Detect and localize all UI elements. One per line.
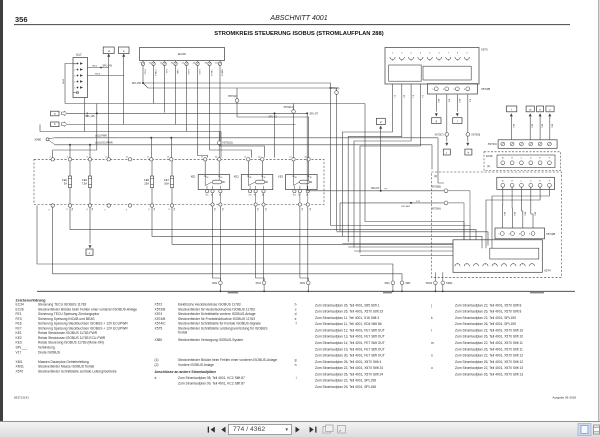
svg-text:30: 30 (310, 177, 312, 179)
svg-text:M.1: M.1 (402, 95, 404, 99)
svg-text:X575: X575 (155, 326, 163, 330)
X574/B pin 3 (521, 232, 525, 236)
svg-text:2: 2 (49, 157, 50, 159)
svg-text:33: 33 (205, 63, 208, 65)
svg-text:Steckverbinder Schnittstelle z: Steckverbinder Schnittstelle zentrale Le… (38, 369, 117, 373)
wire flag l to X574/C (510, 116, 512, 140)
svg-text:15: 15 (289, 157, 291, 159)
wire X574 to XM11 a (434, 272, 436, 281)
svg-text:663712141: 663712141 (14, 396, 29, 400)
svg-text:Zum Stromlaufplan 08, Teil 400: Zum Stromlaufplan 08, Teil 4001, KC2 Sti… (178, 376, 245, 380)
svg-text:(+15) ECU/PWR: (+15) ECU/PWR (95, 142, 113, 145)
svg-text:XM1: XM1 (16, 360, 23, 364)
X573/B pin 2 (445, 87, 449, 91)
wire FE3 to flag c (89, 207, 91, 243)
wire ECU drop to FE3 (89, 144, 91, 146)
svg-text:3: 3 (519, 234, 521, 236)
svg-text:X572: X572 (155, 303, 163, 307)
wire feed top terminal 52.7 (53, 150, 97, 158)
svg-text:Verbindung: Verbindung (38, 346, 55, 350)
svg-text:X573/B: X573/B (481, 87, 490, 91)
svg-text:Zum Stromlaufplan 09, Teil 400: Zum Stromlaufplan 09, Teil 4001, KC2 Sti… (178, 381, 245, 385)
svg-text:i: i (457, 119, 458, 123)
relay KE3 top terminals (292, 158, 295, 161)
node SPL-150 (142, 69, 144, 84)
svg-text:o: o (431, 366, 433, 370)
svg-text:A: A (502, 179, 504, 182)
svg-text:Steckverbinder Masse ISOBUS fr: Steckverbinder Masse ISOBUS frontal (38, 365, 94, 369)
svg-text:8: 8 (169, 209, 170, 211)
svg-text:Ausgabe 06-2018: Ausgabe 06-2018 (552, 396, 576, 400)
svg-text:5: 5 (429, 53, 431, 55)
svg-text:d: d (295, 312, 297, 316)
svg-text:EC26: EC26 (16, 307, 24, 311)
svg-text:KE2: KE2 (234, 175, 239, 179)
svg-text:SPL___: SPL___ (16, 346, 28, 350)
svg-text:(1): (1) (155, 358, 159, 362)
svg-text:Zum Stromlaufplan 11, Teil 400: Zum Stromlaufplan 11, Teil 4001, S16 Sti… (315, 316, 379, 320)
wire SPL-150 east run (143, 83, 331, 226)
connector X573 (385, 48, 479, 85)
svg-text:5: 5 (104, 210, 105, 212)
X574/C pin A (501, 142, 505, 146)
relay KE3 (286, 175, 318, 190)
wire flag d down (108, 57, 110, 158)
X573 pin 6 (436, 57, 441, 60)
wire X575A into unit (448, 202, 464, 204)
svg-text:X580: X580 (35, 138, 42, 142)
svg-text:Massen Dauerplus Getriebeleitu: Massen Dauerplus Getriebeleitung (38, 360, 89, 364)
EC26 pin 10 (153, 61, 155, 63)
svg-text:o: o (549, 107, 551, 111)
wire X574 to XM11 b (442, 272, 444, 281)
flag c (86, 249, 93, 255)
node SPL-145 (100, 67, 102, 69)
svg-text:frontal: frontal (178, 330, 187, 334)
wire bundle line6 (360, 255, 453, 257)
svg-text:P.1: P.1 (393, 95, 395, 99)
svg-text:Steckverbinder Schnittstelle v: Steckverbinder Schnittstelle vordere ISO… (178, 312, 256, 316)
X574/C pin F (548, 142, 552, 146)
X573 pin 9 (464, 57, 469, 60)
X573 pin 7 (446, 57, 451, 60)
connector X573/B (428, 84, 478, 94)
X574/B pin 2 (511, 232, 515, 236)
relay KE2 (241, 175, 272, 190)
wire V17 to SPL-145 (88, 67, 109, 69)
svg-text:86: 86 (206, 177, 208, 179)
svg-text:X573: X573 (481, 48, 488, 52)
svg-text:X574/B: X574/B (155, 317, 167, 321)
svg-text:XM11: XM11 (446, 281, 453, 285)
svg-text:40.5: 40.5 (513, 212, 515, 216)
svg-text:Relais Steckdosen ISOBUS 11783: Relais Steckdosen ISOBUS 11783 ECU-PWR (38, 336, 106, 340)
flag d (103, 47, 114, 54)
wire ground run y264 (37, 206, 393, 282)
wire EC26 pin10 run (143, 83, 337, 88)
EC26 pin 7 (142, 61, 144, 63)
flag j (443, 149, 450, 155)
flag l (506, 106, 517, 112)
svg-text:FE3: FE3 (82, 178, 87, 182)
fuse FE6 bottom terminal (150, 204, 153, 207)
wire bundle line2 (337, 232, 489, 246)
wire y131 drop to KE1 (220, 132, 222, 158)
wire KE1 drops (213, 206, 221, 281)
EC26 pin 20 (175, 61, 177, 63)
svg-text:V17: V17 (76, 53, 82, 57)
svg-text:SPL-125: SPL-125 (85, 115, 95, 118)
flag o (546, 106, 554, 112)
svg-text:XM11: XM11 (16, 365, 25, 369)
svg-text:Zum Stromlaufplan 26, Teil 400: Zum Stromlaufplan 26, Teil 4001, X570 St… (315, 372, 383, 376)
wire long horizontal y103 (65, 103, 365, 105)
ground bar 3 (530, 292, 544, 294)
page header rule (14, 24, 570, 26)
fuse FE3 7,5A (89, 161, 91, 176)
wire bundle line3 (342, 243, 453, 245)
svg-text:2: 2 (74, 69, 75, 71)
svg-text:l: l (511, 107, 512, 111)
X574/C pin D (529, 142, 533, 146)
fuse FE2 bottom terminal (68, 204, 71, 207)
svg-text:m: m (431, 341, 434, 345)
svg-text:A: A (502, 157, 504, 160)
svg-text:h: h (295, 363, 297, 367)
svg-text:4: 4 (529, 234, 531, 236)
svg-text:EC29: EC29 (486, 154, 493, 158)
circuit title (0, 31, 598, 37)
page number box (228, 424, 292, 435)
ground point XM1 (262, 281, 266, 285)
ground point XM1 (391, 281, 395, 285)
ECU EC26 (140, 48, 225, 61)
svg-text:Vordere ISOBUS Anlage: Vordere ISOBUS Anlage (178, 363, 214, 367)
X574 pin 6 (501, 264, 506, 267)
svg-text:E.1: E.1 (412, 95, 414, 99)
svg-text:8: 8 (105, 157, 106, 159)
svg-text:4: 4 (420, 53, 422, 55)
wire X573 pin3 route (354, 84, 411, 248)
svg-text:45.5: 45.5 (541, 124, 543, 128)
svg-text:HXL6: HXL6 (95, 74, 101, 76)
svg-text:i: i (296, 376, 297, 380)
connector X575(A) (444, 201, 448, 205)
EC26 pin 34 (219, 61, 221, 63)
svg-text:HXL2: HXL2 (187, 70, 189, 76)
svg-text:Steckverbinder Brücke beim Feh: Steckverbinder Brücke beim Fehlen einer … (178, 358, 277, 362)
flag m (526, 106, 534, 112)
panel bottom terminal 5 (128, 204, 131, 207)
svg-text:Zum Stromlaufplan 22, Teil 400: Zum Stromlaufplan 22, Teil 4001, X570 St… (455, 366, 523, 370)
X574 pin 5 (492, 264, 497, 267)
fuse FE6 25A (151, 161, 153, 176)
svg-text:86: 86 (295, 177, 297, 179)
svg-text:CAN: CAN (176, 70, 179, 75)
svg-text:X570(15): X570(15) (222, 142, 232, 145)
wire bundle line4 (348, 246, 453, 248)
svg-text:6: 6 (87, 157, 88, 159)
svg-text:P.5: P.5 (221, 208, 223, 211)
snapshot tool icon (323, 425, 333, 433)
svg-text:(2): (2) (434, 174, 437, 178)
svg-text:Zum Stromlaufplan 22, Teil 400: Zum Stromlaufplan 22, Teil 4001, SPL158 (315, 379, 376, 383)
svg-text:1: 1 (498, 234, 500, 236)
svg-text:FE1: FE1 (16, 312, 22, 316)
svg-text:Zum Stromlaufplan 22, Teil 400: Zum Stromlaufplan 22, Teil 4001, X570 St… (315, 366, 383, 370)
svg-text:g: g (436, 119, 438, 123)
svg-text:Sicherung TECU Speisung Zündun: Sicherung TECU Speisung Zündungsplus (38, 312, 99, 316)
svg-text:Zum Stromlaufplan 22, Teil 400: Zum Stromlaufplan 22, Teil 4001, X570 St… (455, 303, 521, 307)
svg-text:FE6: FE6 (16, 322, 22, 326)
svg-text:P.5: P.5 (256, 208, 258, 211)
wire X573 pin4 route (360, 84, 420, 253)
svg-text:Zum Stromlaufplan 26, Teil 400: Zum Stromlaufplan 26, Teil 4001, SPL159 (455, 322, 516, 326)
svg-text:2: 2 (401, 53, 403, 55)
X574 pin 4 (483, 264, 488, 267)
page number (15, 15, 28, 24)
svg-text:m: m (529, 107, 532, 111)
svg-text:Zum Stromlaufplan 26, Teil 400: Zum Stromlaufplan 26, Teil 4001, X570 St… (315, 310, 383, 314)
svg-text:V17: V17 (16, 350, 22, 354)
svg-text:4: 4 (464, 89, 466, 91)
connector X570(16) (336, 88, 338, 91)
svg-text:11: 11 (160, 63, 163, 65)
svg-text:2: 2 (509, 234, 511, 236)
wire PWR drop to FE6 (150, 137, 152, 139)
svg-text:17: 17 (201, 157, 203, 159)
wire X573 pin1 route (342, 84, 392, 237)
wire PWR drop to FE7 (170, 137, 172, 139)
svg-text:9: 9 (48, 210, 49, 212)
svg-text:F: F (549, 180, 551, 182)
svg-text:k: k (431, 316, 433, 320)
wire strip pin 2 to X574/B (511, 187, 513, 228)
svg-text:F: F (549, 158, 551, 160)
prev page button (221, 427, 225, 433)
wire b-run drop to relay KE3 (293, 125, 295, 158)
svg-text:Sicherung Speisung INCAB und B: Sicherung Speisung INCAB und BEAS (38, 317, 95, 321)
svg-text:BMW.5: BMW.5 (221, 70, 223, 77)
svg-text:40.5: 40.5 (534, 212, 536, 216)
svg-text:Zum Stromlaufplan 26, Teil 400: Zum Stromlaufplan 26, Teil 4001, X570 St… (455, 372, 523, 376)
X574/B pin 4 (531, 232, 535, 236)
X573 pin 4 (418, 57, 423, 60)
wire SPL-GT to X575(B) (306, 113, 308, 190)
ground bar 2 (383, 292, 392, 294)
svg-text:X574/C: X574/C (155, 322, 167, 326)
fuse panel top terminal 2 (51, 158, 54, 161)
svg-text:a: a (54, 111, 56, 115)
X574/C pin B (510, 142, 514, 146)
svg-text:B: B (511, 180, 513, 182)
svg-text:XM1: XM1 (384, 281, 390, 285)
svg-text:86: 86 (250, 177, 252, 179)
svg-text:2: 2 (443, 89, 445, 91)
fuse panel top terminal 10 (128, 158, 131, 161)
X574 inner shell (490, 248, 539, 259)
X574/C pin C (520, 142, 524, 146)
svg-text:25A: 25A (144, 182, 149, 186)
svg-text:X570(9): X570(9) (471, 133, 480, 136)
svg-text:24: 24 (193, 63, 196, 65)
svg-text:(1): (1) (487, 164, 490, 168)
svg-text:Relais Steckdosen ISOBUS 11783: Relais Steckdosen ISOBUS 11783 PWR (38, 331, 98, 335)
X574/B pin 1 (500, 232, 504, 236)
svg-text:Zum Stromlaufplan 11, Teil 400: Zum Stromlaufplan 11, Teil 4001, KD4 Sti… (315, 322, 382, 326)
svg-text:10: 10 (126, 157, 128, 159)
svg-text:f: f (296, 322, 297, 326)
relay KE2 coil and contact (255, 180, 264, 184)
fuse panel top terminal 14 (170, 158, 173, 161)
svg-text:Elektrische Hecksteckdose ISOB: Elektrische Hecksteckdose ISOBUS 11783 (178, 303, 241, 307)
svg-text:7: 7 (448, 53, 450, 55)
wire FE6 output run (152, 207, 482, 248)
wire X573/B pin4 drop (467, 95, 469, 133)
wire (+15)ECU-PWR (55, 144, 432, 146)
svg-text:P.5: P.5 (308, 208, 310, 211)
svg-text:Steckverbinder Brücke beim Feh: Steckverbinder Brücke beim Fehlen einer … (38, 307, 137, 311)
svg-text:X580: X580 (155, 338, 163, 342)
wire pin33 down (210, 69, 252, 158)
svg-text:X570(16): X570(16) (329, 87, 339, 90)
relay KE3 coil and contact (300, 180, 310, 184)
svg-text:1: 1 (392, 53, 394, 55)
svg-text:2: 2 (380, 120, 382, 124)
svg-text:l: l (431, 328, 432, 332)
svg-text:30: 30 (215, 157, 217, 159)
svg-text:30: 30 (258, 157, 260, 159)
svg-text:X573/B: X573/B (155, 307, 167, 311)
connector X574/B (495, 228, 545, 239)
front ISOBUS unit enclosure (2) (431, 172, 561, 277)
svg-text:30: 30 (264, 177, 266, 179)
wire X573/B pin3 drop (456, 95, 458, 112)
wire flag m to X574/C (529, 116, 531, 140)
wire bundle line5 (354, 250, 453, 252)
svg-text:FE3: FE3 (16, 317, 22, 321)
fuse panel top terminal 6 (88, 158, 91, 161)
svg-text:Steckverbinder Schnittstelle L: Steckverbinder Schnittstelle Leistungsvo… (178, 326, 268, 330)
EC26 pin 24 (197, 61, 199, 63)
X573 pin 8 (455, 57, 460, 60)
last page button (310, 427, 317, 433)
svg-text:B: B (511, 158, 513, 160)
svg-text:EC34: EC34 (16, 303, 24, 307)
svg-text:XM1: XM1 (256, 281, 262, 285)
svg-text:45.5: 45.5 (512, 124, 514, 128)
ground bar 1 (228, 292, 239, 294)
wire KE2 drops (256, 206, 265, 281)
svg-text:6: 6 (438, 53, 440, 55)
wire pin21 down (186, 69, 188, 132)
relay KE2 top terminals (247, 158, 250, 161)
svg-text:D: D (530, 180, 532, 182)
node SPL-GT (306, 112, 308, 114)
svg-text:FE7: FE7 (164, 178, 169, 182)
svg-text:n: n (539, 107, 541, 111)
svg-text:SPL-150: SPL-150 (132, 82, 142, 85)
EC26 pin 33 (209, 61, 211, 63)
wire strip pin 1 to X574/B (501, 187, 504, 228)
wire pin24 down (198, 69, 208, 158)
wire strip pin 4 to X574/B (531, 187, 533, 228)
svg-text:HXL4: HXL4 (144, 70, 146, 76)
wire ECU drop to FE2 (69, 144, 71, 146)
section header (0, 15, 598, 22)
wire strip pin F down (492, 187, 549, 248)
svg-text:Zum Stromlaufplan 26, Teil 400: Zum Stromlaufplan 26, Teil 4001, S55 Sti… (315, 303, 380, 307)
svg-text:3: 3 (74, 75, 75, 77)
panel bottom terminal 1 (51, 204, 54, 207)
wire PWR into X575(B) (438, 138, 444, 183)
svg-text:20: 20 (171, 63, 174, 65)
svg-text:HXL4: HXL4 (92, 66, 98, 68)
svg-text:Zum Stromlaufplan 22, Teil 400: Zum Stromlaufplan 22, Teil 4001, X570 St… (455, 354, 523, 358)
svg-text:87a: 87a (249, 195, 252, 197)
svg-text:42.5: 42.5 (458, 99, 460, 103)
svg-text:XM1: XM1 (212, 281, 218, 285)
svg-text:Zum Stromlaufplan 26, Teil 400: Zum Stromlaufplan 26, Teil 4001, X570 St… (455, 335, 523, 339)
node SPL-125 (96, 112, 98, 114)
svg-text:X570(7): X570(7) (435, 133, 444, 136)
svg-text:Zum Stromlaufplan 26, Teil 400: Zum Stromlaufplan 26, Teil 4001, X570 St… (455, 360, 523, 364)
wire X573/B pin1 drop (435, 95, 437, 112)
svg-text:X574/B: X574/B (546, 232, 555, 236)
svg-text:4: 4 (67, 157, 68, 159)
page binder strip (0, 0, 3, 421)
svg-text:XM1: XM1 (405, 281, 411, 285)
flag k (465, 149, 472, 155)
wire flag a east run (67, 112, 307, 114)
wire V17 left to lower bus (65, 64, 73, 104)
svg-text:10: 10 (149, 63, 152, 65)
svg-text:Diode ISOBUS: Diode ISOBUS (38, 350, 61, 354)
svg-text:KE3: KE3 (278, 175, 283, 179)
bridge plug EC29 enclosure (484, 152, 561, 171)
ground point XM1 (219, 281, 223, 285)
svg-text:SPL-A91: SPL-A91 (401, 205, 411, 208)
fuse panel top terminal 8 (107, 158, 110, 161)
wire y103 drop at x365 (365, 104, 464, 240)
svg-text:b: b (295, 303, 297, 307)
svg-text:4: 4 (126, 210, 127, 212)
svg-text:KE3: KE3 (16, 341, 22, 345)
scroll mode icon (selected) (578, 424, 591, 436)
svg-text:Zum Stromlaufplan 13, Teil 400: Zum Stromlaufplan 13, Teil 4001, FE7 Sti… (315, 335, 385, 339)
flag g2 above (376, 118, 385, 124)
svg-text:3: 3 (411, 53, 413, 55)
wire y131 left end up (39, 125, 41, 132)
wire ECU into X575(A) (431, 145, 433, 170)
svg-text:SPL-145: SPL-145 (103, 64, 113, 67)
svg-text:X570(2): X570(2) (228, 95, 237, 98)
connector X570(2) (236, 88, 238, 99)
svg-text:E: E (539, 158, 541, 160)
svg-text:c: c (295, 307, 297, 311)
wire FE7 output run (172, 207, 453, 244)
svg-text:P.5: P.5 (264, 208, 266, 211)
svg-text:40.5: 40.5 (503, 212, 505, 216)
node SPL-K2 (274, 112, 276, 114)
next page button (296, 427, 300, 433)
svg-text:j: j (445, 151, 447, 155)
X573 pin 5 (427, 57, 432, 60)
svg-text:FE2: FE2 (62, 178, 67, 182)
svg-text:Zum Stromlaufplan 22, Teil 400: Zum Stromlaufplan 22, Teil 4001, X570 St… (455, 341, 523, 345)
svg-text:40.5: 40.5 (437, 99, 439, 103)
flag under X573/B pin1 (432, 118, 441, 124)
